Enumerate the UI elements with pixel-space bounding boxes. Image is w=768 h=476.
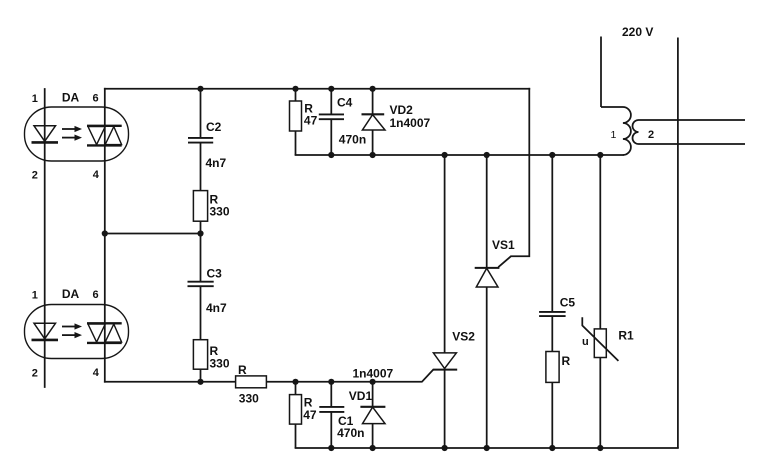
transformer primary winding 1 bbox=[601, 107, 631, 155]
varistor R1 bbox=[582, 155, 618, 448]
node top rail / VD2 bbox=[370, 86, 376, 92]
svg-text:DA: DA bbox=[62, 287, 80, 301]
svg-text:C2: C2 bbox=[206, 120, 222, 134]
wire VS1 anode bbox=[486, 287, 488, 448]
wire VD2 bottom bbox=[372, 130, 374, 155]
optocoupler DA1 bbox=[25, 107, 129, 161]
optocoupler DA1 body bbox=[25, 107, 129, 161]
optocoupler DA2 bbox=[25, 305, 129, 359]
svg-text:330: 330 bbox=[210, 357, 230, 371]
220V mains bbox=[601, 37, 678, 449]
svg-text:VD2: VD2 bbox=[390, 103, 414, 117]
svg-text:C4: C4 bbox=[337, 96, 353, 110]
snubber top: R47a C4 VD2 bbox=[290, 89, 386, 155]
resistor R 47 (bottom) bbox=[290, 395, 302, 425]
capacitor C1 bbox=[319, 406, 344, 408]
svg-text:DA: DA bbox=[62, 91, 80, 105]
wire VS2 anode bbox=[444, 155, 446, 353]
wire opto right line pin6-pin4 chain bbox=[104, 89, 106, 382]
wire R1 bottom bbox=[599, 358, 601, 449]
thyristor VS1 bbox=[475, 155, 500, 448]
wire C4 bottom bbox=[330, 119, 332, 155]
resistor R 330 (b) bbox=[193, 340, 207, 370]
wire left control line bbox=[44, 89, 46, 387]
svg-text:470n: 470n bbox=[339, 133, 366, 147]
svg-text:C5: C5 bbox=[560, 296, 576, 310]
svg-text:47: 47 bbox=[304, 114, 318, 128]
capacitor C4 bbox=[319, 113, 344, 115]
svg-text:2: 2 bbox=[32, 368, 38, 380]
node mid rail / C4 bbox=[328, 152, 334, 158]
optocoupler DA2 body bbox=[25, 305, 129, 359]
resistor R (C5 chain) bbox=[546, 352, 559, 383]
node top rail / C4 bbox=[328, 86, 334, 92]
wire C5 to R bbox=[551, 316, 553, 351]
node mid rail / R1 bbox=[597, 152, 603, 158]
wire R bottom bbox=[551, 382, 553, 448]
wire R47b bottom bbox=[295, 424, 297, 448]
node gate rail / VD1 bbox=[370, 379, 376, 385]
svg-text:470n: 470n bbox=[337, 426, 364, 440]
svg-text:1n4007: 1n4007 bbox=[390, 116, 431, 130]
wire mains left line bbox=[600, 37, 602, 108]
diode VD1 bbox=[360, 406, 385, 408]
capacitor C5 + resistor R branch bbox=[539, 155, 566, 448]
wire R1 top bbox=[599, 155, 601, 329]
node bottom rail / R chain bbox=[549, 445, 555, 451]
wire R1b to gate rail bbox=[200, 369, 202, 382]
node gate rail / R330b bbox=[197, 379, 203, 385]
light arrows DA2 bbox=[62, 323, 82, 338]
capacitor C2 branch bbox=[188, 89, 213, 234]
svg-text:R: R bbox=[562, 354, 571, 368]
node mid rail / VD2 bbox=[370, 152, 376, 158]
capacitor C3 branch bbox=[188, 234, 214, 382]
node bottom rail / R1 bbox=[597, 445, 603, 451]
wire bottom rail bbox=[296, 447, 678, 449]
varistor R1 diagonal bbox=[582, 317, 618, 361]
svg-text:330: 330 bbox=[210, 205, 230, 219]
wire VD1 top bbox=[372, 382, 374, 407]
wire C2 top bbox=[200, 89, 202, 138]
LED inside DA1 bbox=[32, 126, 59, 143]
svg-text:6: 6 bbox=[92, 93, 98, 105]
node bottom rail / VS2 bbox=[442, 445, 448, 451]
wire gate rail to VS2 bbox=[105, 370, 433, 382]
wire C4 top bbox=[330, 89, 332, 115]
wire top rail bbox=[105, 88, 530, 90]
svg-text:C3: C3 bbox=[207, 267, 223, 281]
capacitor C5 bbox=[539, 311, 566, 313]
node gate rail / C1 bbox=[328, 379, 334, 385]
wire mid rail bbox=[296, 154, 623, 156]
node mid-left rail / R330a bbox=[197, 230, 203, 236]
node top rail / C2 bbox=[197, 86, 203, 92]
wire C1 top bbox=[330, 382, 332, 407]
node mid rail / C5 bbox=[549, 152, 555, 158]
triac inside DA2 bbox=[87, 323, 122, 343]
resistor R 47 (top) bbox=[290, 101, 302, 131]
svg-text:1: 1 bbox=[611, 129, 617, 141]
svg-text:1n4007: 1n4007 bbox=[353, 367, 394, 381]
resistor R 330 (a) bbox=[193, 191, 207, 222]
wire mid-left rail between optocouplers bbox=[105, 233, 201, 235]
svg-text:1: 1 bbox=[32, 93, 38, 105]
svg-text:220 V: 220 V bbox=[622, 25, 653, 39]
wire C1 bottom bbox=[330, 412, 332, 448]
triac inside DA1 bbox=[87, 126, 122, 146]
capacitor C3 bbox=[188, 281, 214, 283]
thyristor VS2 bbox=[433, 155, 457, 448]
capacitor C2 bbox=[188, 137, 213, 139]
resistor R 330 horizontal bbox=[236, 376, 267, 388]
node mid rail / VS2 bbox=[442, 152, 448, 158]
LED inside DA2 bbox=[32, 323, 59, 340]
wire R47b top bbox=[295, 382, 297, 395]
wire C3 to R1b bbox=[200, 286, 202, 340]
svg-text:6: 6 bbox=[92, 289, 98, 301]
wire C3 top bbox=[200, 234, 202, 282]
wire VD2 top bbox=[372, 89, 374, 115]
svg-text:4: 4 bbox=[93, 367, 100, 379]
wire VS2 cathode bbox=[444, 370, 446, 448]
svg-text:4n7: 4n7 bbox=[206, 301, 227, 315]
varistor R1 body bbox=[594, 329, 606, 358]
svg-text:R: R bbox=[238, 363, 247, 377]
node gate rail / R47b bbox=[292, 379, 298, 385]
svg-text:4n7: 4n7 bbox=[206, 156, 227, 170]
svg-text:1: 1 bbox=[32, 290, 38, 302]
svg-text:VS2: VS2 bbox=[452, 330, 475, 344]
wire VS1 gate feed bbox=[499, 89, 529, 267]
transformer secondary winding 2 bbox=[633, 120, 746, 144]
light arrows DA1 bbox=[62, 126, 82, 141]
node bottom rail / C1 bbox=[328, 445, 334, 451]
svg-text:2: 2 bbox=[648, 129, 654, 141]
node mid rail / VS1 bbox=[484, 152, 490, 158]
wire mains right line bbox=[677, 38, 679, 449]
node top rail / R47a bbox=[292, 86, 298, 92]
node bottom rail / VS1 bbox=[484, 445, 490, 451]
wire C5 top bbox=[551, 155, 553, 312]
node mid-left rail / opto chain bbox=[102, 230, 108, 236]
svg-text:R1: R1 bbox=[618, 329, 634, 343]
wire VD1 bottom bbox=[372, 424, 374, 448]
svg-text:47: 47 bbox=[303, 408, 317, 422]
wire R47a top bbox=[295, 89, 297, 101]
svg-text:u: u bbox=[582, 336, 589, 348]
svg-text:4: 4 bbox=[93, 169, 100, 181]
svg-text:VS1: VS1 bbox=[492, 238, 515, 252]
svg-text:VD1: VD1 bbox=[349, 389, 373, 403]
node bottom rail / VD1 bbox=[370, 445, 376, 451]
svg-text:330: 330 bbox=[239, 392, 259, 406]
wire VS1 cathode bbox=[486, 155, 488, 268]
transformer T1 bbox=[601, 107, 745, 155]
wire R1a to mid-left rail bbox=[200, 221, 202, 233]
wire C2 to R1a bbox=[200, 143, 202, 191]
diode VD2 bbox=[362, 113, 385, 115]
snubber bottom: R47b C1 VD1 bbox=[290, 382, 386, 448]
svg-text:2: 2 bbox=[32, 170, 38, 182]
wire R47a bottom bbox=[295, 131, 297, 155]
